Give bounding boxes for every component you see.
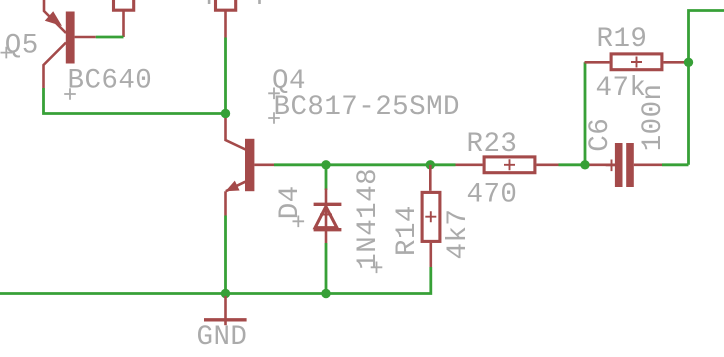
label tick top 1 <box>208 0 211 4</box>
ground GND <box>204 296 247 325</box>
junction at C6/R19 left node <box>580 160 589 169</box>
svg-text:D4: D4 <box>275 185 306 219</box>
wire ground rail <box>0 267 431 294</box>
wire R23 to node <box>559 163 586 166</box>
transistor Q4 <box>226 118 275 216</box>
svg-text:Q5: Q5 <box>5 31 39 62</box>
junction ground rail / Q4 emitter <box>221 289 230 298</box>
origin cross D4 name <box>293 216 305 228</box>
resistor R19 <box>585 54 686 70</box>
wire right vertical and top corner <box>689 11 724 165</box>
resistor (partial, top-center) <box>216 0 236 10</box>
svg-text:R23: R23 <box>467 129 518 160</box>
svg-text:4k7: 4k7 <box>443 209 474 260</box>
svg-text:100n: 100n <box>638 83 669 151</box>
capacitor C6 <box>590 143 663 187</box>
svg-text:BC640: BC640 <box>68 66 153 97</box>
resistor (partial, top-left) <box>114 0 134 10</box>
resistor R14 <box>422 165 440 267</box>
junction at Q4 collector node <box>221 109 230 118</box>
origin cross Q4 name <box>268 88 280 100</box>
diode D4 <box>314 189 342 244</box>
label tick top 2 <box>258 0 261 4</box>
pin of top-center resistor <box>224 10 227 37</box>
svg-text:1N4148: 1N4148 <box>353 168 384 270</box>
pin of top-left resistor <box>122 10 125 37</box>
origin cross 1N4148 value <box>371 262 383 274</box>
resistor R23 <box>456 157 559 173</box>
wire Q4 base net <box>274 163 456 166</box>
svg-text:C6: C6 <box>585 118 616 152</box>
transistor Q5 <box>44 0 96 88</box>
wire Q5 collector to node <box>44 88 226 114</box>
wire up to R19 <box>584 62 587 165</box>
wire Q5 base to resistor <box>96 36 124 39</box>
svg-text:GND: GND <box>197 322 248 353</box>
wire from top-center resistor down <box>224 38 227 114</box>
svg-text:R14: R14 <box>392 205 423 256</box>
svg-text:R19: R19 <box>597 24 648 55</box>
wire diode to ground rail <box>325 243 328 294</box>
junction at R19 right node <box>684 58 693 67</box>
origin cross BC640 value <box>64 88 76 100</box>
svg-text:470: 470 <box>467 179 518 210</box>
wire Q4 emitter down <box>224 216 227 294</box>
origin cross BC817 value <box>268 112 280 124</box>
junction ground rail / diode <box>321 289 330 298</box>
junction at diode top <box>321 160 330 169</box>
origin cross Q5 name <box>1 47 13 59</box>
wire to diode <box>325 165 328 190</box>
svg-text:BC817-25SMD: BC817-25SMD <box>274 92 460 123</box>
junction at R14 top <box>426 160 435 169</box>
wire C6 to right vertical <box>662 163 689 166</box>
